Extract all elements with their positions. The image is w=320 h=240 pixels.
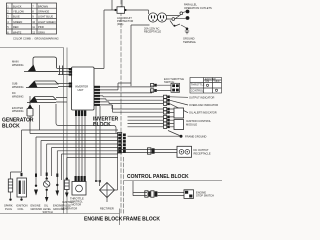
- harness run 6: [52, 148, 119, 177]
- svg-text:COIL: COIL: [18, 207, 25, 211]
- ac circuit protector CP: [114, 7, 133, 26]
- wire dc winding right: [56, 98, 67, 103]
- block boundary inverter left: [66, 48, 68, 214]
- svg-text:OVERLOAD INDICATOR: OVERLOAD INDICATOR: [189, 103, 218, 107]
- svg-text:INVERTER: INVERTER: [75, 85, 88, 89]
- wire pair to eco switch: [157, 85, 171, 90]
- svg-text:PINK: PINK: [38, 25, 44, 29]
- ac receptacle: [144, 10, 167, 34]
- harness run 4: [41, 141, 118, 177]
- svg-text:FRAME BLOCK: FRAME BLOCK: [123, 217, 160, 223]
- wire sub winding to inverter: [58, 84, 70, 87]
- svg-text:WINDING: WINDING: [12, 63, 24, 67]
- ignition coil T1: [16, 178, 28, 211]
- svg-text:TERMINAL: TERMINAL: [183, 40, 197, 44]
- svg-text:WINDING: WINDING: [12, 85, 24, 89]
- svg-text:BROWN: BROWN: [38, 4, 48, 8]
- wire main winding to inverter: [36, 69, 70, 75]
- harness run 7: [57, 151, 118, 185]
- oil level switch SW3: [43, 177, 53, 214]
- svg-text:THROTTLE: THROTTLE: [191, 83, 205, 87]
- svg-text:CONTROL PANEL BLOCK: CONTROL PANEL BLOCK: [127, 174, 189, 180]
- throttle control motor: [70, 182, 86, 207]
- spark plug wire: [11, 172, 22, 179]
- block boundary frame left (dashed): [120, 0, 122, 214]
- eco throttle continuity table: [190, 77, 222, 93]
- dc connector pair: [148, 148, 155, 154]
- block boundary generator right: [63, 48, 65, 214]
- wire bundle inverter to throttle motor: [76, 116, 85, 176]
- svg-text:OPERATION OUTLETS: OPERATION OUTLETS: [184, 6, 212, 10]
- svg-text:WINDING: WINDING: [12, 109, 24, 113]
- stop switch connector pairs: [151, 191, 158, 197]
- svg-text:GENERATOR: GENERATOR: [61, 207, 77, 211]
- svg-text:GRAY: GRAY: [38, 30, 45, 34]
- block boundary engine/frame tick: [119, 209, 121, 226]
- control panel connector: [118, 133, 126, 154]
- svg-text:MAIN: MAIN: [12, 60, 19, 64]
- svg-text:STOP SWITCH: STOP SWITCH: [196, 194, 214, 198]
- overload indicator label: [170, 100, 218, 107]
- rectifier D1: [95, 180, 115, 211]
- svg-text:LIGHT BLUE: LIGHT BLUE: [38, 15, 53, 19]
- wire sub return to panel: [56, 104, 116, 133]
- label GENERATOR BLOCK: [2, 118, 34, 130]
- svg-text:MODULE: MODULE: [186, 122, 197, 126]
- wire rectifier output: [115, 153, 118, 190]
- wire from top edge: [111, 0, 113, 10]
- svg-text:OFF: OFF: [215, 79, 221, 83]
- label INVERTER BLOCK: [93, 117, 119, 129]
- svg-text:ENGINE BLOCK: ENGINE BLOCK: [84, 217, 123, 223]
- wire inverter output up to protector: [94, 10, 115, 69]
- inverter unit: [72, 67, 95, 110]
- wire frame ground: [128, 131, 180, 137]
- module connector pairs: [164, 108, 170, 129]
- wire rectifier feed 2: [99, 106, 101, 183]
- wire rectifier feed 1: [95, 106, 97, 181]
- harness run 1: [22, 130, 119, 172]
- engine ground 1: [31, 185, 43, 211]
- svg-text:LIGHT GREEN: LIGHT GREEN: [38, 20, 56, 24]
- inverter right connector pins: [94, 86, 100, 106]
- svg-text:CONTROL: CONTROL: [191, 89, 204, 93]
- svg-text:GROUND: GROUND: [31, 207, 43, 211]
- svg-text:ORANGE: ORANGE: [38, 10, 50, 14]
- svg-text:RED: RED: [13, 25, 19, 29]
- wire receptacle lower branch: [131, 25, 150, 86]
- oil alert indicator connector: [164, 102, 170, 105]
- frame ground: [180, 135, 207, 139]
- svg-text:RECEPTACLE: RECEPTACLE: [144, 30, 161, 34]
- svg-text:PLUG: PLUG: [5, 207, 12, 211]
- harness run 2: [30, 133, 118, 135]
- ignition control module: [170, 108, 211, 130]
- svg-text:GREEN: GREEN: [13, 20, 22, 24]
- svg-text:WHITE: WHITE: [13, 30, 22, 34]
- parallel operation outlets: [172, 3, 212, 21]
- control panel block boundary: [124, 180, 222, 182]
- svg-text:FRAME GROUND: FRAME GROUND: [185, 135, 206, 139]
- wire protector to receptacle: [126, 9, 149, 11]
- spark plug P1: [4, 179, 13, 211]
- svg-text:BLOCK: BLOCK: [2, 124, 20, 130]
- svg-text:SUB: SUB: [12, 82, 18, 86]
- wire dc output: [118, 150, 177, 153]
- svg-text:DC: DC: [12, 91, 16, 95]
- stop switch connector pair 2: [145, 191, 151, 197]
- wire engine stop switch: [133, 181, 184, 196]
- oil alert indicator label: [170, 104, 217, 115]
- wire receptacle to outlets: [167, 16, 180, 20]
- svg-text:COLOR COMB : GROUND/MARKING: COLOR COMB : GROUND/MARKING: [13, 36, 59, 40]
- wire exciter winding down: [29, 116, 31, 134]
- svg-text:UNIT: UNIT: [78, 88, 84, 92]
- block boundary control panel left (dashed): [122, 157, 124, 214]
- inverter left connector pins: [69, 68, 72, 87]
- wire dc return down: [39, 105, 41, 130]
- svg-text:(30A): (30A): [117, 22, 123, 26]
- exciter winding L4: [12, 96, 33, 116]
- switch to ground terminal: [170, 21, 187, 29]
- sub winding L2: [12, 81, 58, 90]
- wire inverter ac out to eco throttle: [100, 83, 152, 93]
- svg-text:ON: ON: [205, 79, 209, 83]
- output indicator label: [170, 95, 214, 99]
- ground terminal: [183, 28, 197, 44]
- harness inline connector ticks: [21, 173, 59, 177]
- color code table: [7, 3, 57, 34]
- wires to module pairs: [128, 117, 164, 127]
- engine stop switch SW1: [184, 190, 214, 199]
- svg-text:WINDING: WINDING: [12, 95, 24, 99]
- connector ticks main winding: [60, 66, 63, 76]
- output indicator connector: [164, 95, 170, 98]
- dc winding L3: [12, 91, 56, 103]
- svg-text:SWITCH: SWITCH: [43, 210, 53, 214]
- block boundary generator top: [0, 47, 64, 49]
- eco throttle connector pair: [151, 84, 157, 93]
- inverter bottom connector pins: [75, 111, 86, 117]
- throttle motor connector: [75, 176, 86, 182]
- harness run 5: [47, 144, 118, 178]
- harness run 3: [36, 137, 118, 185]
- engine ground 2: [53, 184, 65, 211]
- svg-text:RECTIFIER: RECTIFIER: [100, 207, 114, 211]
- eco throttle switch SW2: [164, 77, 184, 93]
- harness run 8: [62, 154, 119, 180]
- wire from top edge 2: [121, 0, 123, 7]
- dc output receptacle: [177, 146, 211, 157]
- ignition pulse generator: [61, 177, 77, 210]
- main winding L1: [12, 57, 58, 72]
- wire inverter signals down: [100, 96, 163, 112]
- overload indicator connector: [164, 99, 170, 102]
- svg-text:BLACK: BLACK: [13, 4, 22, 8]
- svg-text:OIL ALERT INDICATOR: OIL ALERT INDICATOR: [189, 111, 217, 115]
- svg-text:YELLOW: YELLOW: [13, 10, 24, 14]
- svg-text:BLUE: BLUE: [13, 15, 20, 19]
- wire ipg up: [67, 158, 118, 178]
- svg-text:OUTPUT INDICATOR: OUTPUT INDICATOR: [189, 95, 214, 99]
- block boundary engine bottom: [0, 213, 120, 215]
- svg-text:RECEPTACLE: RECEPTACLE: [194, 151, 211, 155]
